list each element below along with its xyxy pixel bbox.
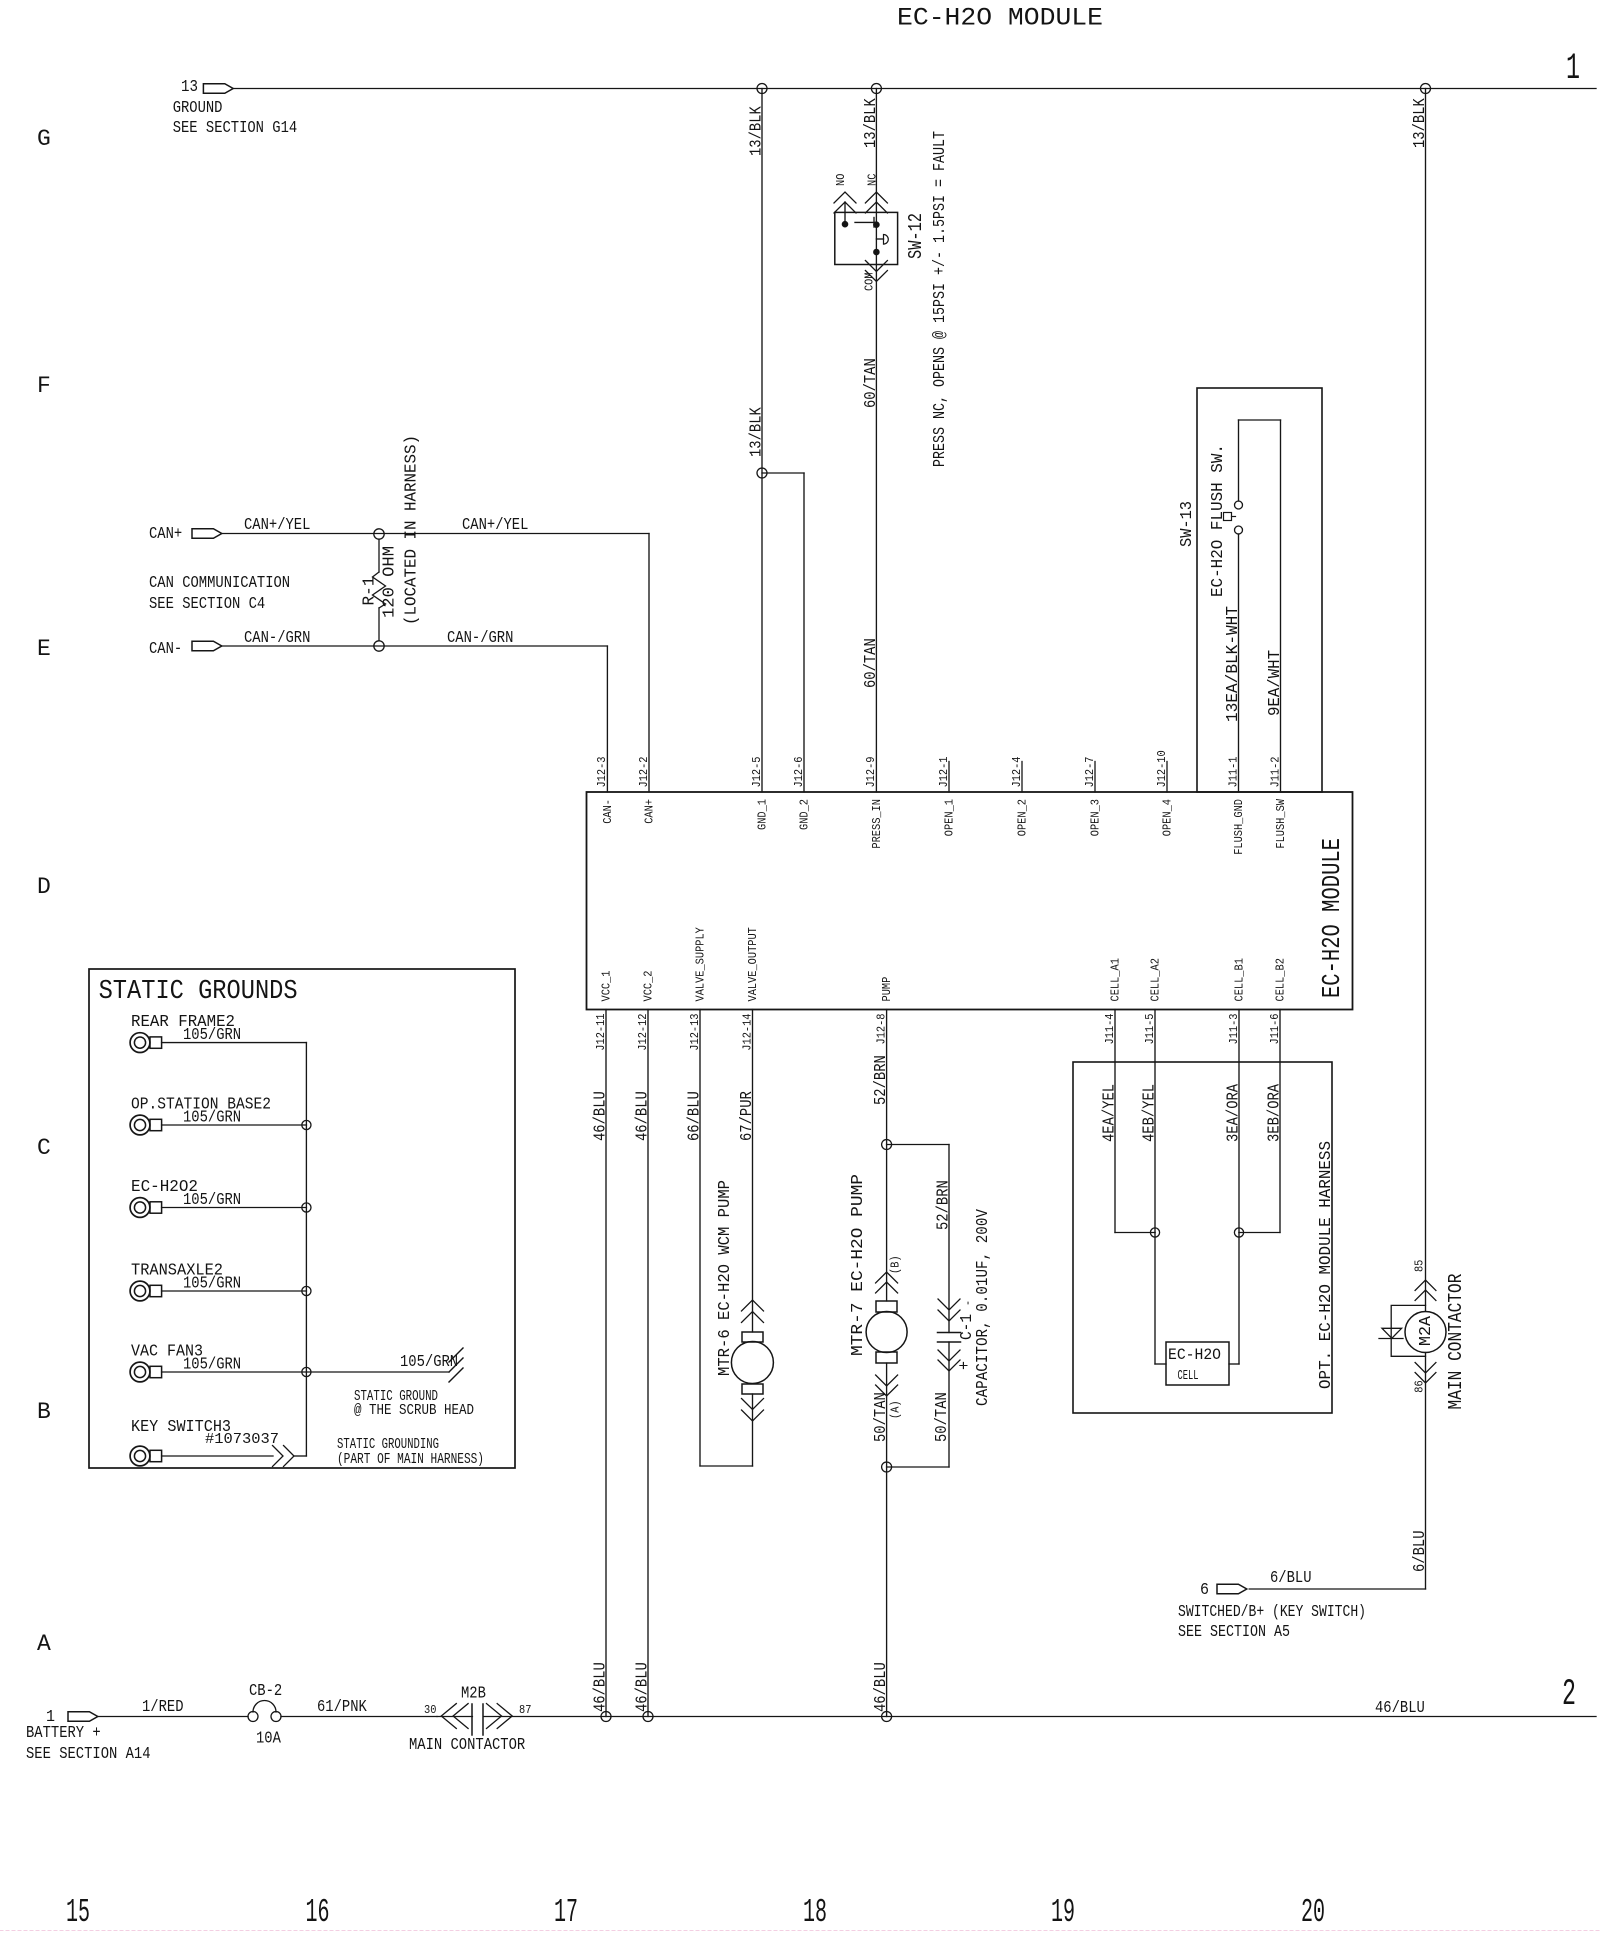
svg-text:VALVE_SUPPLY: VALVE_SUPPLY — [694, 927, 707, 1001]
wire 3EB/ORA — [1239, 1010, 1280, 1233]
pin name VALVE_SUPPLY — [694, 927, 707, 1001]
pin stub J12-10 (no connect) — [1166, 762, 1168, 793]
svg-text:17: 17 — [554, 1894, 578, 1931]
wire 66/BLU valve supply — [700, 1010, 753, 1467]
ring terminal REAR FRAME2 — [130, 1033, 162, 1053]
motor MTR-6 EC-H2O WCM pump — [731, 1332, 773, 1394]
label REAR FRAME2 — [131, 1013, 235, 1032]
label 46/BLU (J12-11 upper) — [591, 1091, 610, 1141]
SW-12 actuator — [876, 235, 888, 245]
svg-text:SEE SECTION A14: SEE SECTION A14 — [26, 1744, 151, 1763]
connector chevrons below MTR-7 — [876, 1375, 898, 1396]
svg-text:46/BLU: 46/BLU — [591, 1091, 610, 1141]
svg-text:50/TAN: 50/TAN — [932, 1392, 951, 1442]
wire 46/BLU VCC_1 — [605, 1010, 607, 1717]
pin J12-14 label — [741, 1013, 754, 1050]
label 105/GRN (OP.STATION BASE2) — [183, 1108, 241, 1127]
svg-text:61/PNK: 61/PNK — [317, 1697, 367, 1716]
splice chevrons (key switch ground) — [273, 1446, 295, 1467]
svg-text:D: D — [37, 874, 51, 900]
wire switch to top — [1238, 420, 1240, 501]
label - (C-1 polarity) — [962, 1300, 975, 1306]
svg-text:C: C — [37, 1135, 51, 1161]
wire 1/RED — [98, 1716, 248, 1718]
label (PART OF MAIN HARNESS) — [337, 1451, 484, 1468]
svg-text:16: 16 — [306, 1894, 330, 1931]
pin name FLUSH_GND — [1233, 799, 1246, 855]
junction bottom bus / VCC_2 — [643, 1712, 653, 1722]
label CAN-/GRN (right) — [447, 628, 513, 647]
svg-text:9EA/WHT: 9EA/WHT — [1265, 650, 1284, 716]
svg-text:J12-2: J12-2 — [638, 756, 651, 787]
svg-text:PUMP: PUMP — [881, 977, 894, 1002]
OPT. EC-H2O MODULE HARNESS box — [1073, 1062, 1332, 1413]
svg-text:OPEN_4: OPEN_4 — [1161, 799, 1174, 836]
svg-text:MTR-7 EC-H2O PUMP: MTR-7 EC-H2O PUMP — [848, 1174, 867, 1356]
svg-text:(LOCATED IN HARNESS): (LOCATED IN HARNESS) — [402, 435, 421, 625]
STATIC GROUNDS box — [89, 969, 515, 1468]
pin name VCC_1 — [600, 970, 613, 1001]
pin J11-6 label — [1269, 1013, 1282, 1044]
junction pump / capacitor bottom — [882, 1462, 892, 1472]
ring terminal TRANSAXLE2 — [130, 1281, 162, 1301]
pin name OPEN_2 — [1016, 799, 1029, 836]
wire branch to GND_2 — [762, 473, 804, 792]
label @ THE SCRUB HEAD — [354, 1402, 474, 1419]
wire 61/PNK — [281, 1716, 437, 1718]
wire SW-13 top cross — [1239, 419, 1281, 421]
svg-text:J12-6: J12-6 — [793, 756, 806, 787]
pin J12-6 label — [793, 756, 806, 787]
label 46/BLU (J12-12 upper) — [633, 1091, 652, 1141]
wire 46/BLU VCC_2 — [647, 1010, 649, 1717]
pin J12-7 label — [1084, 757, 1097, 788]
junction top wire / GND_1 drop — [757, 84, 767, 94]
label (A) — [889, 1400, 902, 1419]
svg-text:CAPACITOR, 0.01UF, 200V: CAPACITOR, 0.01UF, 200V — [973, 1209, 992, 1406]
svg-text:PRESS_IN: PRESS_IN — [871, 799, 884, 849]
wire 52/BRN pump — [886, 1010, 888, 1302]
wire 13/BLK to GND_1 (J12-5) — [761, 89, 763, 793]
svg-text:VCC_2: VCC_2 — [642, 970, 655, 1001]
label M2A — [1416, 1316, 1435, 1346]
label 30 (M2B) — [424, 1704, 436, 1717]
pressure switch SW-12 body — [835, 212, 898, 264]
svg-text:SWITCHED/B+ (KEY SWITCH): SWITCHED/B+ (KEY SWITCH) — [1178, 1602, 1366, 1621]
pin J11-1 label — [1227, 756, 1240, 787]
connector chevrons above M2A — [1415, 1280, 1436, 1301]
label 13/BLK (above SW-12) — [861, 98, 880, 148]
svg-text:MAIN CONTACTOR: MAIN CONTACTOR — [409, 1735, 525, 1754]
pin J12-4 label — [1011, 756, 1024, 787]
pin J12-10 label — [1156, 750, 1169, 787]
column label 16 — [306, 1894, 330, 1931]
svg-text:46/BLU: 46/BLU — [633, 1091, 652, 1141]
label 13/BLK (right) — [1410, 98, 1429, 148]
column label 15 — [66, 1894, 90, 1931]
svg-text:@ THE SCRUB HEAD: @ THE SCRUB HEAD — [354, 1402, 474, 1419]
title: EC-H2O MODULE (sheet title) — [897, 4, 1103, 33]
svg-text:(A): (A) — [889, 1400, 902, 1419]
label 13/BLK (wire J12-5 upper) — [747, 106, 766, 156]
static ground bus — [305, 1043, 307, 1456]
svg-text:60/TAN: 60/TAN — [861, 638, 880, 688]
svg-text:6/BLU: 6/BLU — [1410, 1531, 1429, 1573]
contactor tips M2B — [441, 1704, 512, 1735]
label CAN-/GRN (left) — [244, 628, 310, 647]
svg-text:J12-9: J12-9 — [865, 756, 878, 787]
label C-1 — [957, 1314, 976, 1340]
circuit breaker CB-2 10A — [248, 1701, 281, 1722]
wire 3EA/ORA — [1238, 1010, 1240, 1233]
svg-text:105/GRN: 105/GRN — [183, 1025, 241, 1044]
svg-text:R-1: R-1 — [360, 576, 379, 605]
svg-text:6: 6 — [1200, 1580, 1209, 1599]
label 87 (M2B) — [519, 1704, 531, 1717]
junction R-1 bottom — [374, 641, 384, 651]
svg-text:105/GRN: 105/GRN — [183, 1108, 241, 1127]
SW-12 contact lever — [855, 218, 876, 250]
svg-text:F: F — [37, 373, 51, 399]
SW-12 NO stub and contact — [842, 202, 848, 227]
sheet continuation number 2 (bottom right) — [1562, 1674, 1576, 1716]
svg-text:CAN+: CAN+ — [149, 524, 182, 543]
svg-text:E: E — [37, 636, 51, 662]
label 46/BLU (bottom right) — [1375, 1698, 1425, 1717]
svg-text:FLUSH_SW: FLUSH_SW — [1275, 799, 1288, 849]
label 3EB/ORA — [1265, 1084, 1284, 1142]
SW-12 COM contact — [874, 249, 880, 255]
wire 13/BLK top to SW-12 NC — [875, 89, 877, 222]
junction top wire / right 13/BLK drop — [1421, 84, 1431, 94]
pin stub J12-1 (no connect) — [948, 762, 950, 793]
wire 4EB/YEL — [1154, 1010, 1156, 1233]
wire capacitor branch top — [887, 1145, 949, 1333]
row label C — [37, 1135, 51, 1161]
wire 13/BLK top horizontal — [233, 88, 1596, 90]
label OPT. EC-H2O MODULE HARNESS — [1316, 1141, 1335, 1389]
label CELL — [1178, 1368, 1199, 1384]
svg-text:105/GRN: 105/GRN — [183, 1355, 241, 1374]
svg-text:GND_1: GND_1 — [756, 799, 769, 830]
svg-text:46/BLU: 46/BLU — [591, 1662, 610, 1712]
label MAIN CONTACTOR (M2A) — [1445, 1274, 1467, 1410]
row label A — [37, 1631, 51, 1657]
svg-text:CELL_A2: CELL_A2 — [1149, 958, 1162, 1001]
pin J12-1 label — [938, 756, 951, 787]
pin name GND_2 — [798, 799, 811, 830]
svg-text:VCC_1: VCC_1 — [600, 970, 613, 1001]
EC-H2O flush switch SW-13 box — [1197, 388, 1322, 792]
label 46/BLU (pump lower) — [871, 1662, 890, 1712]
label 66/BLU — [685, 1091, 704, 1141]
SW-12 NC contact — [874, 222, 880, 228]
label 9EA/WHT — [1265, 650, 1284, 716]
ring terminal OP.STATION BASE2 — [130, 1115, 162, 1135]
wire MTR-7 bottom — [886, 1363, 888, 1717]
label EC-H2O FLUSH SW. — [1208, 444, 1227, 597]
svg-text:G: G — [37, 126, 51, 152]
junction bus/TRANSAXLE2 — [302, 1286, 311, 1295]
row label G — [37, 126, 51, 152]
svg-text:13/BLK: 13/BLK — [747, 106, 766, 156]
svg-text:STATIC GROUNDS: STATIC GROUNDS — [99, 977, 298, 1007]
svg-text:EC-H2O MODULE: EC-H2O MODULE — [897, 4, 1103, 33]
label (LOCATED IN HARNESS) — [402, 435, 421, 625]
label 10A — [256, 1729, 281, 1748]
pin J11-2 label — [1269, 756, 1282, 787]
svg-text:4EB/YEL: 4EB/YEL — [1140, 1084, 1159, 1142]
svg-text:GROUND: GROUND — [173, 98, 223, 117]
label COM — [863, 272, 876, 291]
connector CAN- — [192, 641, 222, 651]
svg-text:3EB/ORA: 3EB/ORA — [1265, 1084, 1284, 1142]
wire CAN-/GRN — [222, 646, 608, 792]
label 67/PUR — [737, 1091, 756, 1141]
svg-text:A: A — [37, 1631, 51, 1657]
chassis ground symbol (scrub head) — [449, 1348, 463, 1382]
label CAN+ — [149, 524, 182, 543]
svg-text:10A: 10A — [256, 1729, 281, 1748]
svg-text:(B): (B) — [889, 1255, 902, 1274]
connector CAN+ — [192, 529, 222, 539]
svg-text:1/RED: 1/RED — [142, 1697, 184, 1716]
switch SW-13 bottom contact — [1235, 526, 1243, 534]
wire 13/BLK right drop — [1425, 89, 1427, 1312]
connector chevrons below C-1 — [938, 1350, 960, 1371]
junction bus/OP.STATION — [302, 1120, 311, 1129]
pin name OPEN_4 — [1161, 799, 1174, 836]
svg-text:SEE SECTION C4: SEE SECTION C4 — [149, 594, 265, 613]
connector chevrons above MTR-7 — [876, 1272, 898, 1293]
label SW-13 — [1177, 501, 1196, 547]
label 52/BRN (pump) — [871, 1055, 890, 1105]
label 4EA/YEL — [1100, 1084, 1119, 1142]
svg-text:NO: NO — [835, 174, 848, 186]
label + (C-1 polarity) — [955, 1361, 974, 1370]
connector 13 GROUND (off-sheet arrow) — [203, 84, 233, 94]
label 1 (battery) — [46, 1707, 55, 1726]
wire 4EA/YEL — [1115, 1010, 1155, 1233]
connector chevrons above SW-12 NO — [834, 192, 856, 213]
label 1/RED — [142, 1697, 184, 1716]
svg-text:OPEN_1: OPEN_1 — [943, 799, 956, 836]
pin J12-8 label — [875, 1013, 888, 1044]
svg-text:OPEN_3: OPEN_3 — [1089, 799, 1102, 836]
svg-text:13/BLK: 13/BLK — [861, 98, 880, 148]
pin name CELL_B2 — [1274, 958, 1287, 1001]
column label 19 — [1051, 1894, 1075, 1931]
label NC — [867, 174, 880, 186]
label BATTERY + — [26, 1723, 101, 1742]
svg-text:J12-3: J12-3 — [596, 756, 609, 787]
svg-text:105/GRN: 105/GRN — [183, 1190, 241, 1209]
svg-text:CAN+/YEL: CAN+/YEL — [462, 515, 528, 534]
svg-text:BATTERY +: BATTERY + — [26, 1723, 101, 1742]
svg-text:20: 20 — [1301, 1894, 1325, 1931]
contactor coil M2A — [1405, 1312, 1446, 1353]
svg-text:13/BLK: 13/BLK — [1410, 98, 1429, 148]
M2A flyback diode branch box — [1391, 1305, 1425, 1356]
label 85 — [1413, 1260, 1426, 1272]
pin J12-11 label — [595, 1013, 608, 1050]
pin name CELL_A2 — [1149, 958, 1162, 1001]
svg-text:18: 18 — [803, 1894, 827, 1931]
svg-text:CELL_A1: CELL_A1 — [1109, 958, 1122, 1001]
EC-H2O CELL box — [1166, 1342, 1229, 1385]
label 6/BLU (vertical) — [1410, 1531, 1429, 1573]
wire 46/BLU bottom bus — [483, 1716, 1596, 1718]
capacitor C-1 0.01UF 200V — [938, 1333, 961, 1343]
svg-text:2: 2 — [1562, 1674, 1576, 1716]
ring terminal EC-H2O2 — [130, 1198, 162, 1218]
label STATIC GROUND — [354, 1388, 438, 1405]
svg-text:52/BRN: 52/BRN — [871, 1055, 890, 1105]
svg-text:SEE SECTION A5: SEE SECTION A5 — [1178, 1622, 1290, 1641]
junction cell B wires — [1234, 1228, 1243, 1237]
wire 67/PUR valve output — [752, 1010, 754, 1333]
label NO — [835, 174, 848, 186]
pin name PUMP — [881, 977, 894, 1002]
label 120 OHM — [380, 546, 399, 618]
column label 18 — [803, 1894, 827, 1931]
wire FLUSH_SW 9EA/WHT — [1280, 420, 1282, 792]
svg-text:CELL_B2: CELL_B2 — [1274, 958, 1287, 1001]
svg-text:3EA/ORA: 3EA/ORA — [1224, 1084, 1243, 1142]
pin name OPEN_3 — [1089, 799, 1102, 836]
label R-1 — [360, 576, 379, 605]
wire FLUSH_GND 13EA/BLK-WHT — [1238, 534, 1240, 792]
wire 6/BLU horizontal — [1249, 1588, 1425, 1590]
wire 6/BLU vertical — [1425, 1353, 1427, 1590]
diode (M2A suppression) — [1379, 1328, 1403, 1338]
label CAPACITOR, 0.01UF, 200V — [973, 1209, 992, 1406]
svg-text:CELL: CELL — [1178, 1368, 1199, 1384]
pin name GND_1 — [756, 799, 769, 830]
label 13 — [181, 77, 198, 96]
svg-text:SW-12: SW-12 — [905, 213, 927, 259]
wire cell B down — [1229, 1233, 1239, 1365]
label 105/GRN (scrub head) — [400, 1352, 458, 1371]
svg-text:86: 86 — [1413, 1380, 1426, 1392]
junction top wire / pressure-switch drop — [871, 84, 881, 94]
label #1073037 — [205, 1431, 279, 1448]
svg-text:15: 15 — [66, 1894, 90, 1931]
label 50/TAN (pump) — [871, 1392, 890, 1442]
svg-text:EC-H2O MODULE: EC-H2O MODULE — [1317, 838, 1347, 998]
wire M2B left segment — [437, 1716, 472, 1718]
svg-text:CAN-/GRN: CAN-/GRN — [244, 628, 310, 647]
svg-text:MTR-6 EC-H2O WCM PUMP: MTR-6 EC-H2O WCM PUMP — [715, 1180, 734, 1376]
svg-text:GND_2: GND_2 — [798, 799, 811, 830]
switch SW-13 pushbutton actuator — [1224, 513, 1236, 521]
resistor R-1 120 OHM — [373, 539, 386, 641]
junction bus/EC-H2O2 — [302, 1203, 311, 1212]
pin J12-2 label — [638, 756, 651, 787]
svg-text:EC-H2O FLUSH SW.: EC-H2O FLUSH SW. — [1208, 444, 1227, 597]
motor MTR-7 EC-H2O pump — [866, 1301, 907, 1363]
label 105/GRN (VAC FAN3) — [183, 1355, 241, 1374]
svg-text:46/BLU: 46/BLU — [871, 1662, 890, 1712]
label MTR-6 EC-H2O WCM PUMP — [715, 1180, 734, 1376]
pin name VALVE_OUTPUT — [747, 927, 760, 1001]
label CAN+/YEL (left) — [244, 515, 310, 534]
svg-text:EC-H2O: EC-H2O — [1168, 1346, 1221, 1364]
switch SW-13 top contact — [1235, 501, 1243, 509]
pin name FLUSH_SW — [1275, 799, 1288, 849]
wire OP.STATION BASE2 ground — [162, 1124, 307, 1126]
junction bus/VAC FAN3 — [302, 1367, 311, 1376]
pin J11-4 label — [1104, 1013, 1117, 1044]
svg-text:MAIN CONTACTOR: MAIN CONTACTOR — [1445, 1274, 1467, 1410]
svg-text:CELL_B1: CELL_B1 — [1233, 958, 1246, 1001]
svg-text:120 OHM: 120 OHM — [380, 546, 399, 618]
svg-text:PRESS NC, OPENS @ 15PSI +/- 1.: PRESS NC, OPENS @ 15PSI +/- 1.5PSI = FAU… — [930, 131, 949, 467]
svg-text:1: 1 — [1566, 48, 1580, 90]
label STATIC GROUNDS — [99, 977, 298, 1007]
svg-text:CAN-: CAN- — [149, 639, 182, 658]
label 46/BLU (J12-12 lower) — [633, 1662, 652, 1712]
label 60/TAN (lower) — [861, 638, 880, 688]
column label 17 — [554, 1894, 578, 1931]
junction cell A wires — [1150, 1228, 1159, 1237]
pin name CELL_A1 — [1109, 958, 1122, 1001]
svg-text:67/PUR: 67/PUR — [737, 1091, 756, 1141]
svg-text:VALVE_OUTPUT: VALVE_OUTPUT — [747, 927, 760, 1001]
label SEE SECTION A5 — [1178, 1622, 1290, 1641]
svg-text:60/TAN: 60/TAN — [861, 358, 880, 408]
svg-text:4EA/YEL: 4EA/YEL — [1100, 1084, 1119, 1142]
svg-text:CAN-: CAN- — [602, 799, 615, 824]
pin name CAN- — [602, 799, 615, 824]
label CAN- — [149, 639, 182, 658]
connector 6 SWITCHED/B+ — [1217, 1584, 1247, 1594]
note PRESS NC OPENS @ 15PSI — [930, 131, 949, 467]
pin J12-9 label — [865, 756, 878, 787]
sheet continuation number 1 (top right) — [1566, 48, 1580, 90]
pin J11-5 label — [1144, 1013, 1157, 1044]
label M2B — [461, 1684, 486, 1703]
label EC-H2O (cell) — [1168, 1346, 1221, 1364]
svg-text:OPEN_2: OPEN_2 — [1016, 799, 1029, 836]
connector chevrons above SW-12 NC — [865, 192, 887, 213]
pin name CAN+ — [643, 799, 656, 824]
wire TRANSAXLE2 ground — [162, 1290, 307, 1292]
svg-text:CAN-/GRN: CAN-/GRN — [447, 628, 513, 647]
svg-text:13EA/BLK-WHT: 13EA/BLK-WHT — [1223, 606, 1242, 722]
faint sheet edge line (bottom) — [0, 1930, 1600, 1932]
label STATIC GROUNDING — [337, 1436, 439, 1453]
label 4EB/YEL — [1140, 1084, 1159, 1142]
pin name PRESS_IN — [871, 799, 884, 849]
label CAN COMMUNICATION — [149, 573, 290, 592]
svg-text:CB-2: CB-2 — [249, 1681, 282, 1700]
label 50/TAN (capacitor) — [932, 1392, 951, 1442]
svg-text:M2B: M2B — [461, 1684, 486, 1703]
label 13EA/BLK-WHT — [1223, 606, 1242, 722]
wire capacitor branch bottom — [887, 1342, 949, 1467]
pin J11-3 label — [1228, 1013, 1241, 1044]
pin name CELL_B1 — [1233, 958, 1246, 1001]
label EC-H2O MODULE (in box) — [1317, 838, 1347, 998]
label TRANSAXLE2 — [131, 1262, 223, 1281]
svg-text:52/BRN: 52/BRN — [934, 1180, 953, 1230]
label VAC FAN3 — [131, 1343, 203, 1362]
label 52/BRN (capacitor) — [934, 1180, 953, 1230]
row label D — [37, 874, 51, 900]
label 6/BLU (horizontal) — [1270, 1568, 1312, 1587]
label OP.STATION BASE2 — [131, 1096, 271, 1115]
